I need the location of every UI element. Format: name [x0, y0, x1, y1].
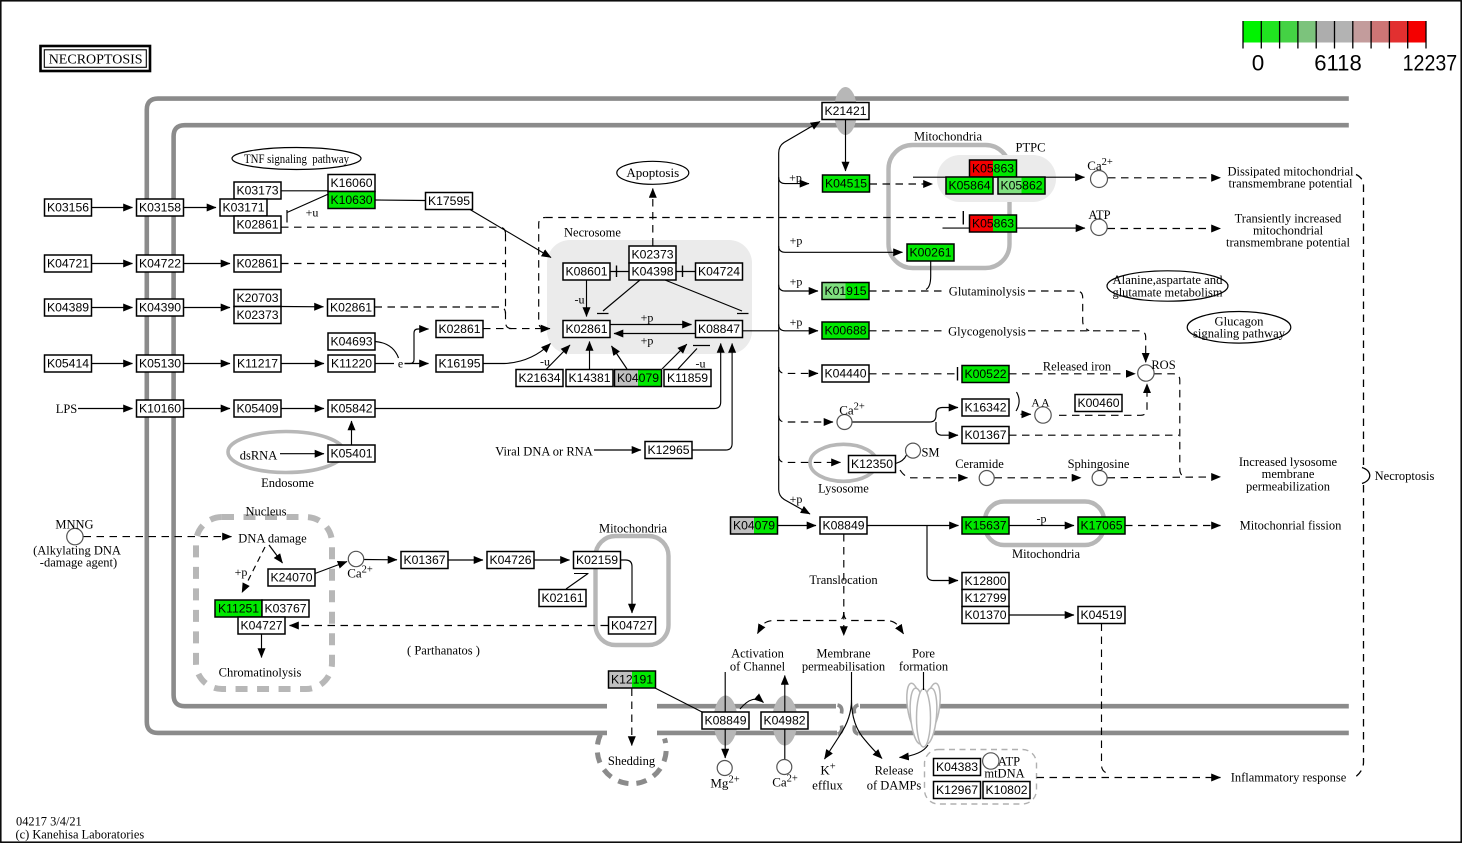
pathway oval Alanine aspartate glutamate metabolism: [1107, 271, 1228, 301]
arrow K05842 riser to K08847 bottom: [375, 344, 721, 409]
svg-text:K04982: K04982: [763, 714, 805, 728]
gene box K00688: [822, 322, 869, 339]
svg-text:K12967: K12967: [936, 783, 978, 797]
svg-text:Lysosome: Lysosome: [818, 482, 869, 496]
cell outer membrane top+left+bottom: [147, 99, 1349, 733]
gene box K02861 a TNF row: [234, 216, 281, 233]
gene box K12800: [962, 573, 1009, 590]
arrow to AA node: [1021, 413, 1031, 415]
expression legend gradient bar: [1243, 21, 1261, 43]
svg-text:K03171: K03171: [222, 201, 264, 215]
svg-text:K01367: K01367: [964, 428, 1006, 442]
gene box K02861 b row2: [234, 255, 281, 272]
necrosome complex blob: [547, 240, 752, 354]
pathway oval Apoptosis: [617, 161, 689, 184]
gene box K12350: [849, 456, 896, 473]
arrow K05130 to K11217: [184, 363, 231, 365]
dashed arrow MNNG to DNA damage: [84, 536, 232, 538]
pathway oval TNF signaling pathway: [232, 148, 361, 170]
dashed arrow Ca2+ node to dissipated potential: [1108, 177, 1221, 179]
svg-text:K02861: K02861: [438, 322, 480, 336]
arrow K05414 to K05130: [92, 363, 133, 365]
svg-text:Released iron: Released iron: [1043, 360, 1112, 374]
svg-text:Release: Release: [875, 764, 914, 778]
svg-text:K02861: K02861: [236, 218, 278, 232]
arrow K11217 to K11220: [281, 363, 324, 365]
svg-text:K02861: K02861: [236, 257, 278, 271]
svg-text:dsRNA: dsRNA: [240, 449, 278, 463]
svg-text:+p: +p: [641, 334, 654, 348]
endosome ellipse: [228, 432, 344, 473]
svg-text:K02373: K02373: [631, 248, 673, 262]
arrow membrane-permeabilisation to K+ efflux: [825, 672, 852, 759]
gene box K24070: [268, 569, 315, 586]
node Sphingosine: [1092, 471, 1107, 486]
svg-text:K12965: K12965: [647, 443, 689, 457]
svg-text:K21634: K21634: [518, 371, 560, 385]
svg-text:K08601: K08601: [565, 265, 607, 279]
wire K04693 to node e: [375, 342, 399, 359]
dashed arrow K02373b to Apoptosis: [652, 189, 654, 246]
svg-text:Inflammatory response: Inflammatory response: [1231, 771, 1347, 785]
gene box K01367 b: [401, 552, 448, 569]
wire K10630 to K17595: [375, 199, 426, 202]
gene box K04727 b mito: [609, 617, 656, 634]
arrow K02159 to K04727b: [621, 560, 633, 613]
gene box K05863 a PTPC: [970, 160, 994, 177]
svg-text:+p: +p: [235, 565, 248, 579]
dashed branch to activation of channel: [758, 612, 844, 634]
mitochondria membrane (fission, center right): [985, 502, 1104, 546]
wire K08847 to cascade spine: [743, 330, 779, 332]
gene box K08849 b channel: [702, 712, 749, 729]
gene box K11217: [234, 355, 281, 372]
gene box K08601: [563, 263, 610, 280]
arrow K04726 to K02159: [534, 559, 570, 561]
svg-text:Viral DNA or RNA: Viral DNA or RNA: [495, 445, 593, 459]
svg-text:Sphingosine: Sphingosine: [1068, 457, 1130, 471]
svg-text:K05863: K05863: [972, 162, 1014, 176]
arrow K14381 to hub: [589, 342, 591, 370]
arrow K21421 to K04515: [845, 120, 847, 171]
gene box K04722: [137, 255, 184, 272]
dashed arrow ATP node to transient potential: [1108, 228, 1221, 230]
cascade dashed branch to Ca2+ node: [779, 416, 833, 422]
svg-text:K00522: K00522: [964, 367, 1006, 381]
svg-text:K03173: K03173: [236, 184, 278, 198]
arrow K04721 to K04722: [92, 263, 133, 265]
arrow branch to K12800: [927, 526, 958, 581]
necroptosis dashed collector line lower: [1356, 485, 1364, 777]
gene box K03173: [234, 182, 281, 199]
dashed arrow K12191 to shedding: [631, 689, 633, 746]
svg-text:K01915: K01915: [824, 284, 866, 298]
svg-text:K04724: K04724: [698, 265, 740, 279]
gene box K03158: [137, 199, 184, 216]
gene box K02373 a row3: [234, 307, 281, 324]
inhibit diagonal K04398 to K02861 hub: [597, 280, 640, 314]
arrow pore to release of DAMPs: [900, 672, 929, 758]
cascade branch +p to K01915: [779, 285, 818, 291]
svg-text:MNNG: MNNG: [55, 518, 93, 532]
svg-text:K04389: K04389: [47, 301, 89, 315]
node ROS: [1138, 365, 1154, 381]
svg-text:K04440: K04440: [824, 367, 866, 381]
svg-text:K24070: K24070: [270, 571, 312, 585]
gene box K12799: [962, 590, 1009, 607]
arrow K16195 to necrosome K02861 hub: [483, 344, 551, 364]
svg-text:A A: A A: [1031, 398, 1050, 410]
arrow K04390 to K20703/K02373: [184, 307, 231, 309]
gene box K04519: [1078, 607, 1125, 624]
svg-text:+p: +p: [790, 315, 803, 329]
pathway oval Glucagon signaling pathway: [1187, 312, 1291, 344]
svg-text:K14381: K14381: [568, 371, 610, 385]
gene box K10802: [983, 782, 1030, 799]
arrow K04079a to K08847: [662, 344, 687, 369]
gene box K04383: [934, 759, 981, 776]
dashed wire ROS to lysosome row: [1154, 374, 1184, 477]
gene box K08849 a: [820, 517, 867, 534]
dashed wire K00688 to Glycogenolysis text: [869, 330, 946, 332]
dashed arrow Sphingosine to increased-lysosome label: [1108, 476, 1221, 479]
gene box K12967: [934, 782, 981, 799]
node SM: [906, 443, 921, 458]
membrane break curl lower-right: [854, 726, 858, 735]
svg-text:Glutaminolysis: Glutaminolysis: [949, 285, 1026, 299]
cascade dashed branch to K04440: [779, 367, 818, 373]
gene box K03767: [262, 600, 309, 617]
gene box K05863 b ATP row: [970, 215, 994, 232]
svg-text:K04383: K04383: [936, 760, 978, 774]
dashed arrow K00522 to ROS: [1009, 373, 1135, 375]
gene box K04727 a nucleus: [238, 617, 285, 634]
svg-text:signaling pathway: signaling pathway: [1193, 327, 1286, 341]
arrow K03158 to K03171: [184, 207, 217, 209]
gene box K12965: [645, 442, 692, 459]
svg-text:K02861: K02861: [330, 301, 372, 315]
dashed wire Glutaminolysis to glycogenolysis merge: [1028, 291, 1089, 331]
node ATP mtDNA: [983, 753, 999, 769]
svg-text:K21421: K21421: [824, 104, 866, 118]
gene box K16342: [962, 399, 1009, 416]
svg-text:K04519: K04519: [1080, 608, 1122, 622]
wire K08849a to K15637: [867, 525, 959, 527]
inhibit diagonal K04398 to K08847: [665, 280, 749, 314]
svg-text:-u: -u: [696, 357, 706, 371]
PTPC complex blob: [937, 155, 1056, 202]
arrow K04079a to hub: [612, 346, 628, 369]
inhibit tee bar K08601-K04398: [616, 266, 618, 278]
svg-text:K10630: K10630: [330, 193, 372, 207]
svg-text:+p: +p: [790, 234, 803, 248]
cascade spine riser to K21421: [779, 122, 820, 331]
svg-text:+p: +p: [789, 171, 802, 185]
arrow K02373a to K02861c: [281, 306, 324, 308]
dashed branch to membrane permeabilisation: [843, 612, 845, 636]
svg-text:K03767: K03767: [264, 602, 306, 616]
svg-text:K10160: K10160: [139, 402, 181, 416]
svg-text:mtDNA: mtDNA: [984, 767, 1024, 781]
dashed arrow DNA damage to K11251 (+p): [242, 547, 265, 593]
svg-text:( Parthanatos ): ( Parthanatos ): [407, 644, 480, 658]
arrow K08601 -u to K02861 hub: [586, 280, 588, 317]
gene box K20703: [234, 290, 281, 307]
arrow K02861 hub to K08847 (+p): [610, 324, 692, 326]
gene box K05130: [137, 355, 184, 372]
gene box K02861 hub necrosome: [563, 321, 610, 338]
gene box K02861 d left: [436, 321, 483, 338]
svg-text:K08849: K08849: [704, 714, 746, 728]
arrow DNA damage to K24070: [269, 545, 283, 563]
svg-text:glutamate metabolism: glutamate metabolism: [1113, 285, 1223, 299]
svg-text:K05409: K05409: [236, 402, 278, 416]
svg-text:-p: -p: [1037, 512, 1047, 526]
svg-text:formation: formation: [899, 660, 949, 674]
necroptosis dashed collector line upper: [1356, 175, 1364, 467]
svg-text:K04079: K04079: [617, 371, 659, 385]
cascade branch +p to K00688: [779, 324, 818, 330]
node Ca2+ channel: [777, 760, 792, 775]
arrow K04079b to K08849a: [778, 525, 817, 527]
gene box K04721: [45, 255, 92, 272]
arrow K24070 to Ca nucleus node: [315, 562, 347, 574]
wire K12350 to SM node: [896, 455, 907, 464]
svg-text:K00688: K00688: [824, 324, 866, 338]
gene box K12191: [609, 671, 633, 688]
svg-text:Mitochonrial fission: Mitochonrial fission: [1240, 519, 1342, 533]
svg-text:Pore: Pore: [912, 647, 935, 661]
svg-text:6118: 6118: [1314, 51, 1362, 76]
mitochondria membrane (upper right): [889, 145, 1010, 268]
dashed wire K04440 to K00522 tee: [869, 373, 956, 375]
arrow LPS to K10160: [78, 408, 133, 410]
gene box K04389: [45, 299, 92, 316]
svg-text:permeabilisation: permeabilisation: [802, 660, 886, 674]
arrow K21634 to hub: [546, 345, 570, 370]
svg-text:Ceramide: Ceramide: [955, 457, 1004, 471]
svg-text:0: 0: [1252, 51, 1265, 76]
svg-text:Activation: Activation: [731, 647, 785, 661]
gene box K04726: [487, 552, 534, 569]
svg-text:K10802: K10802: [985, 783, 1027, 797]
cascade dashed branch to K12350: [779, 456, 841, 462]
svg-text:K16195: K16195: [438, 357, 480, 371]
necroptosis brace: [1362, 468, 1370, 484]
svg-text:K04693: K04693: [330, 335, 372, 349]
svg-text:K04398: K04398: [631, 265, 673, 279]
gene box K05409: [234, 400, 281, 417]
gene box K05414: [45, 355, 92, 372]
svg-text:LPS: LPS: [56, 402, 78, 416]
svg-text:K15637: K15637: [964, 519, 1006, 533]
gene box K16060: [328, 175, 375, 192]
svg-text:K04079: K04079: [733, 519, 775, 533]
membrane break curl upper-left: [838, 705, 842, 714]
dashed wire K01367a to lysosome row: [1009, 434, 1179, 436]
svg-text:-damage agent): -damage agent): [40, 556, 117, 570]
gene box K04079 a: [615, 370, 639, 387]
gene box K10160: [137, 400, 184, 417]
inhibit wire K08601 to K04398: [610, 271, 629, 273]
svg-text:K05401: K05401: [330, 447, 372, 461]
node AA: [1035, 407, 1051, 423]
node Ca2+ cascade: [837, 415, 852, 430]
gene box K14381: [566, 370, 613, 387]
dashed wire K02861c toward hub: [375, 307, 506, 314]
svg-text:+p: +p: [790, 275, 803, 289]
cascade branch +p to K04515: [779, 177, 809, 183]
arrow node e to K02861d: [405, 329, 429, 364]
gene box K21634: [516, 370, 563, 387]
arrow K08847 to K02861 hub (+p): [614, 333, 696, 335]
gene box K05401: [328, 445, 375, 462]
arrow K03156 to K03158: [92, 207, 133, 209]
title box NECROPTOSIS: [41, 46, 151, 71]
inhibit tee bar at K05863b: [962, 211, 964, 225]
arrow K17595 to K08601: [470, 210, 551, 258]
gene box K05862: [998, 177, 1022, 194]
dashed wire y=217.5 to K05863b tee: [545, 217, 961, 219]
K04982 channel ellipse: [772, 696, 797, 746]
node Ca2+ mito: [1091, 171, 1108, 188]
inhibit wire K11859 to K08847: [678, 346, 710, 370]
gene box K00522: [962, 366, 1009, 383]
wire K00261 to glutaminolysis line: [926, 262, 931, 290]
dashed wire K08849a translocation: [843, 534, 845, 612]
svg-text:-u: -u: [575, 293, 585, 307]
svg-text:ATP: ATP: [1088, 208, 1110, 222]
gene box K01370: [962, 607, 1009, 624]
svg-text:Apoptosis: Apoptosis: [626, 165, 679, 180]
svg-text:e: e: [398, 357, 403, 371]
svg-text:K04726: K04726: [489, 553, 531, 567]
curved arrow K08849b to K04982: [740, 699, 764, 709]
dashed arrow mtDNA group to inflammatory response: [1037, 777, 1221, 779]
svg-text:Mitochondria: Mitochondria: [914, 130, 982, 144]
inhibit tee K10630 to K02861a: [287, 194, 329, 223]
gene box K11859: [664, 370, 711, 387]
svg-text:K17065: K17065: [1080, 519, 1122, 533]
svg-text:K11251: K11251: [218, 602, 259, 616]
gene box K04515: [823, 175, 870, 192]
dashed wire K02861a toward hub: [281, 227, 506, 234]
svg-text:Mitochondria: Mitochondria: [1012, 547, 1080, 561]
svg-text:K11220: K11220: [331, 357, 372, 371]
svg-text:K11859: K11859: [667, 371, 708, 385]
svg-text:K05863: K05863: [972, 217, 1014, 231]
svg-text:K05130: K05130: [139, 357, 181, 371]
svg-text:K04727: K04727: [240, 619, 282, 633]
gene box K03156: [45, 199, 92, 216]
svg-text:Translocation: Translocation: [809, 573, 878, 587]
arrow K01367b to K04726: [448, 559, 483, 561]
wire PTPC to Ca2+ node: [913, 176, 1085, 178]
arrow Ca node to K01367a: [936, 422, 958, 435]
dashed wire hub riser x=538.7: [539, 218, 546, 329]
svg-text:K05864: K05864: [948, 179, 990, 193]
svg-text:K12350: K12350: [851, 457, 893, 471]
arrow K10160 to K05409: [184, 408, 231, 410]
dashed vertical collector x=505.5: [506, 234, 513, 329]
svg-text:+p: +p: [790, 492, 803, 506]
svg-text:K20703: K20703: [236, 291, 278, 305]
gene box K01915: [822, 283, 846, 300]
shedding vesicle dashed cup: [597, 735, 666, 784]
svg-text:K04390: K04390: [139, 301, 181, 315]
gene box K04079 b: [731, 517, 755, 534]
dashed arrow K04515 to PTPC: [870, 183, 933, 185]
gene box K00261: [907, 244, 954, 261]
svg-text:transmembrane potential: transmembrane potential: [1229, 177, 1353, 191]
arrow K04727a to chromatinolysis: [261, 635, 263, 658]
arrow node e to K16195: [405, 363, 429, 365]
cell inner membrane top+left+bottom: [174, 125, 1349, 706]
svg-text:efflux: efflux: [812, 778, 843, 793]
gene box K21421: [822, 103, 869, 120]
svg-text:Chromatinolysis: Chromatinolysis: [219, 666, 302, 680]
gene box K01367 a: [962, 427, 1009, 444]
gene box K10630: [328, 192, 375, 209]
mitochondria membrane (lower middle): [596, 536, 669, 645]
dashed arrow K04727b to K04727a: [290, 625, 609, 627]
svg-text:K04721: K04721: [47, 257, 89, 271]
svg-text:Necrosome: Necrosome: [564, 226, 621, 240]
svg-text:Necroptosis: Necroptosis: [1375, 469, 1435, 483]
svg-text:K03156: K03156: [47, 201, 89, 215]
node MNNG: [67, 528, 83, 544]
node Ceramide: [979, 471, 994, 486]
cascade branch +p to K00261: [779, 246, 903, 252]
arrow K01370 to K04519: [1009, 614, 1074, 616]
arrow Ca nucleus node to K01367b: [364, 559, 397, 561]
K21421 channel ellipse: [834, 87, 857, 135]
gene box K16195: [436, 355, 483, 372]
svg-text:K11217: K11217: [237, 357, 278, 371]
svg-text:K02161: K02161: [541, 591, 583, 605]
dashed wire AA node to ROS: [1059, 384, 1147, 416]
arrow K05401 to K05842: [351, 421, 353, 445]
wire K03173 to K16060: [281, 190, 328, 192]
gene box K02161: [539, 590, 586, 607]
svg-text:K04515: K04515: [825, 177, 867, 191]
svg-text:K05414: K05414: [47, 357, 89, 371]
svg-text:K00261: K00261: [909, 246, 951, 260]
svg-text:K04727: K04727: [611, 619, 653, 633]
gene box K04398: [629, 263, 676, 280]
svg-text:12237: 12237: [1403, 51, 1458, 76]
gene box K15637: [962, 517, 1009, 534]
svg-text:NECROPTOSIS: NECROPTOSIS: [49, 53, 143, 68]
svg-text:PTPC: PTPC: [1016, 141, 1046, 155]
svg-text:Shedding: Shedding: [608, 754, 656, 768]
svg-text:Nucleus: Nucleus: [246, 505, 287, 519]
dashed wire K02861d to hub with arrow: [483, 328, 550, 330]
svg-text:04217 3/4/21: 04217 3/4/21: [16, 815, 82, 829]
lysosome ellipse: [810, 444, 877, 481]
K08849 channel ellipse: [714, 696, 738, 746]
arrow membrane-permeabilisation to release of DAMPs: [852, 700, 883, 759]
svg-text:TNF signaling pathway: TNF signaling pathway: [244, 152, 350, 166]
svg-text:K08849: K08849: [822, 519, 864, 533]
wire K12191 to K08849b: [655, 688, 704, 713]
membrane break curl upper-right: [854, 705, 858, 714]
node ATP mito: [1091, 219, 1107, 235]
svg-text:K12191: K12191: [611, 673, 653, 687]
svg-text:Endosome: Endosome: [261, 476, 314, 490]
dashed wire Glycogenolysis to ROS: [1028, 331, 1146, 362]
nucleus dashed envelope: [196, 517, 332, 689]
